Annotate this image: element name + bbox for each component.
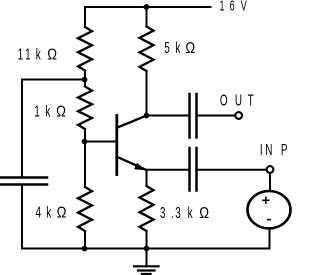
svg-text:T: T <box>248 91 254 109</box>
label 11 kOhm <box>18 45 58 64</box>
wire top supply rail <box>85 6 211 8</box>
node 4k bottom <box>82 246 88 252</box>
svg-text:N: N <box>265 140 272 158</box>
transistor Q1 base bar <box>115 116 118 175</box>
svg-text:V: V <box>241 0 247 14</box>
transistor Q1 emitter arrow <box>134 163 145 171</box>
resistor R 11k <box>78 27 92 71</box>
svg-text:U: U <box>235 91 242 109</box>
resistor R 3.3k <box>140 186 154 231</box>
ground <box>134 249 159 275</box>
label 3.3 kOhm <box>160 204 209 223</box>
label OUT <box>220 91 254 109</box>
label 5 kOhm <box>164 39 195 58</box>
svg-text:k: k <box>45 102 50 120</box>
node INP terminal <box>267 166 274 173</box>
svg-text:1: 1 <box>25 45 31 63</box>
wire bottom rail <box>22 248 270 250</box>
transistor Q1 emitter <box>118 157 147 170</box>
svg-text:5: 5 <box>164 39 170 57</box>
node collector <box>144 113 150 119</box>
wire emitter junction right <box>147 169 189 171</box>
node OUT terminal <box>235 112 242 119</box>
source V1 minus <box>267 219 271 221</box>
svg-text:1: 1 <box>18 45 24 63</box>
svg-text:P: P <box>281 140 288 158</box>
svg-text:1: 1 <box>220 0 225 14</box>
wire in cap to terminal <box>198 169 266 171</box>
resistor R 5k <box>140 27 154 72</box>
capacitor C in <box>190 148 197 191</box>
svg-text:Ω: Ω <box>47 46 57 63</box>
transistor Q1 collector <box>118 116 147 128</box>
node 11k-1k divider <box>82 77 88 83</box>
wire collector node up to 5k <box>146 71 148 116</box>
node base <box>82 139 88 145</box>
wire 3.3k bottom lead <box>146 231 148 249</box>
svg-text:Ω: Ω <box>185 40 195 57</box>
label 4 kOhm <box>35 203 66 222</box>
source V1 plus <box>262 197 269 204</box>
wire 11k top lead <box>84 7 86 27</box>
svg-text:Ω: Ω <box>56 103 66 120</box>
source V1 circle <box>248 191 291 228</box>
svg-text:I: I <box>260 140 263 158</box>
svg-text:3: 3 <box>160 204 166 222</box>
svg-text:Ω: Ω <box>199 205 209 222</box>
svg-text:k: k <box>46 203 51 221</box>
node ground junction <box>144 246 150 252</box>
wire 1k leads <box>84 80 86 87</box>
svg-text:k: k <box>175 39 180 57</box>
resistor R 1k <box>78 87 92 130</box>
svg-text:k: k <box>188 204 193 222</box>
wire out cap to terminal <box>198 115 234 117</box>
label 1 kOhm <box>34 102 66 121</box>
wire terminal INP down to source <box>269 174 271 191</box>
wire source to bottom rail <box>269 229 271 249</box>
wire node to left branch <box>22 80 85 177</box>
svg-text:6: 6 <box>230 0 235 14</box>
svg-text:4: 4 <box>35 203 41 221</box>
svg-text:.: . <box>171 204 174 222</box>
wire collector to out cap <box>147 115 189 117</box>
svg-text:Ω: Ω <box>57 204 67 221</box>
wire 5k top lead <box>146 7 148 27</box>
label 16 V <box>220 0 247 14</box>
node top rail / 5k <box>144 4 150 10</box>
resistor R 4k <box>78 187 92 231</box>
capacitor left input <box>0 178 47 185</box>
svg-text:k: k <box>36 45 41 63</box>
svg-text:3: 3 <box>175 204 181 222</box>
wire base <box>85 141 116 143</box>
capacitor C out <box>190 94 197 138</box>
svg-text:1: 1 <box>34 102 40 120</box>
svg-text:O: O <box>220 91 228 109</box>
wire 4k leads <box>84 142 86 188</box>
wire emitter down to 3.3k <box>146 170 148 186</box>
wire left branch lower <box>21 186 23 249</box>
label IN P <box>260 140 288 158</box>
wire 11k bottom lead <box>84 71 86 80</box>
